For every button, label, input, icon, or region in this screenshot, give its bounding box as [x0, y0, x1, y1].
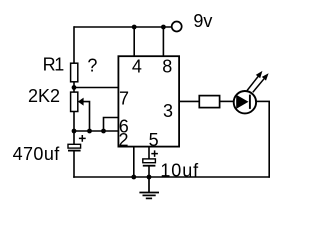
- wire resistor to LED: [220, 100, 235, 102]
- node junction below R1: [72, 85, 77, 90]
- svg-text:2: 2: [119, 130, 129, 150]
- wire R1 bottom to junction: [73, 82, 75, 93]
- svg-text:7: 7: [119, 89, 129, 109]
- potentiometer VR1 2K2 body: [71, 92, 78, 111]
- svg-text:?: ?: [87, 55, 97, 75]
- wire left branch vertical down to R1: [73, 26, 75, 63]
- wire pot bottom down: [73, 112, 75, 132]
- svg-text:2K2: 2K2: [28, 86, 60, 106]
- wire pin1 to ground rail: [133, 147, 135, 178]
- LED D1 circle: [234, 91, 256, 113]
- svg-text:3: 3: [163, 101, 173, 121]
- node junction pin6 branch: [101, 129, 106, 134]
- wire pin7 horizontal to IC: [74, 87, 119, 89]
- wire pin8 vertical: [162, 27, 164, 56]
- potentiometer wiper arrow: [78, 98, 84, 106]
- node junction pin1 on ground rail: [131, 175, 136, 180]
- wire top rail from left branch to 9v terminal: [74, 26, 172, 28]
- node junction pin8 on top rail: [161, 25, 166, 30]
- wire wiper tail: [83, 102, 89, 131]
- wire C2 bottom to ground rail: [148, 166, 150, 177]
- capacitor C2 10uf negative plate: [143, 165, 156, 167]
- wire pin2 horizontal rail: [74, 130, 119, 132]
- wire C1 bottom down: [73, 151, 75, 178]
- node junction wiper: [87, 129, 92, 134]
- svg-text:8: 8: [162, 57, 172, 77]
- svg-text:470uf: 470uf: [13, 144, 61, 164]
- wire pin4 vertical: [133, 27, 135, 56]
- wire bottom ground rail: [73, 176, 270, 178]
- LED light arrow 1: [247, 71, 262, 91]
- wire right rail down to ground rail: [268, 101, 270, 177]
- svg-text:5: 5: [149, 130, 159, 150]
- wire pin5 down to C2: [148, 147, 150, 160]
- LED light arrow 2: [253, 73, 269, 92]
- terminal 9v open circle: [172, 22, 182, 32]
- node junction C2 on ground rail: [147, 175, 152, 180]
- LED D1 anode triangle: [236, 95, 248, 109]
- plus sign C2: [151, 150, 158, 157]
- wire pin6 branch: [104, 118, 119, 132]
- resistor R2 LED series body: [199, 96, 219, 108]
- IC U1 555 body: [118, 56, 179, 146]
- svg-text:4: 4: [132, 57, 142, 77]
- capacitor C2 10uf positive plate: [143, 159, 156, 163]
- svg-text:9v: 9v: [193, 11, 212, 31]
- LED D1 cathode bar: [249, 95, 251, 109]
- wire junction down to C1: [73, 131, 75, 145]
- resistor R1: [71, 63, 78, 82]
- ground symbol: [139, 177, 159, 198]
- svg-text:R1: R1: [43, 54, 65, 74]
- capacitor C1 470uf negative plate: [68, 150, 81, 152]
- wire LED cathode to right rail: [256, 100, 270, 102]
- svg-text:10uf: 10uf: [160, 160, 199, 180]
- node junction pin4 on top rail: [132, 25, 137, 30]
- node junction pot bottom: [72, 129, 77, 134]
- wire pin3 to series resistor: [179, 100, 200, 102]
- plus sign C1: [79, 135, 86, 142]
- capacitor C1 470uf positive plate: [68, 144, 81, 148]
